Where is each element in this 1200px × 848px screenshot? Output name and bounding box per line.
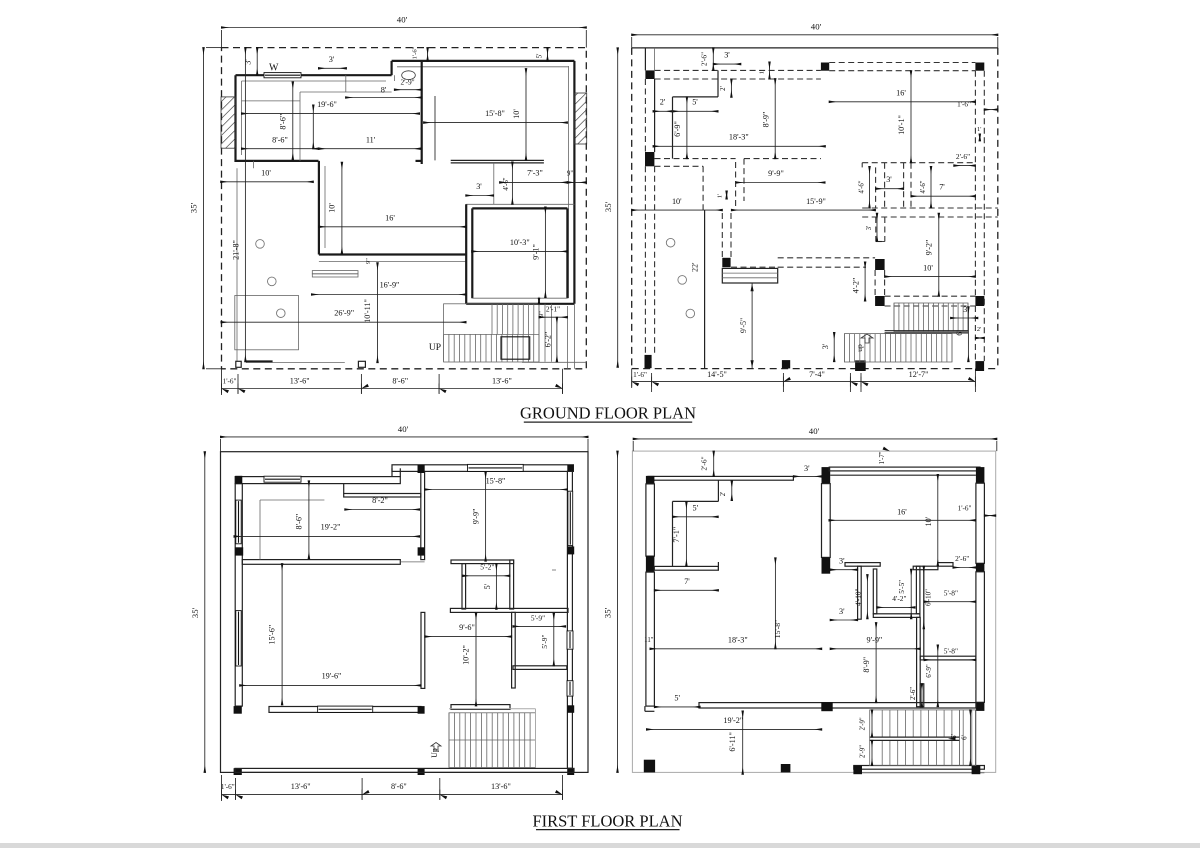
beam col mid upper [735,162,737,210]
svg-text:8'-9": 8'-9" [762,112,771,128]
svg-text:16': 16' [897,507,907,516]
svg-text:10': 10' [672,197,682,206]
svg-text:W: W [269,63,279,74]
beam col left [644,79,646,152]
dim 2' p4 [731,481,733,501]
beam row mid [862,207,998,209]
svg-text:11": 11" [644,637,654,644]
svg-text:3': 3' [244,59,253,65]
wardrobe shelf [451,159,544,161]
window parapet [318,706,373,712]
toilet top band [451,560,514,564]
stair direction arrow [948,737,956,740]
dim 15'-8 p4 [774,558,776,649]
wall step [391,61,393,75]
dim 1'-6 step [427,48,429,61]
svg-text:19'-6": 19'-6" [322,672,342,681]
svg-text:5': 5' [692,98,698,107]
dim 10' room [885,276,976,278]
dim 26'-9 [221,321,466,323]
dim 1'-6 p4 [984,515,995,517]
dim 6'-11 [742,711,744,774]
dim 10' hall [221,181,314,183]
svg-text:35': 35' [603,607,613,618]
svg-text:21'-8": 21'-8" [232,240,241,260]
dim 10' kitchen vert [341,162,343,253]
beam col mid lower [721,213,723,258]
svg-text:10': 10' [924,516,933,526]
svg-text:9'-5": 9'-5" [739,318,748,333]
svg-text:19'-6": 19'-6" [317,100,337,109]
dim 18'-3 p4 [650,648,822,650]
svg-text:8'-6": 8'-6" [391,782,407,791]
stair landing rect [501,337,530,359]
band toward 2'-6 [938,563,953,567]
dim 3' room [876,188,904,190]
dim 9'-5 line [751,283,753,369]
dim 2'-9 b [871,740,873,765]
dim 9'-9 p3 [485,472,487,561]
svg-text:4'-10": 4'-10" [854,589,862,606]
svg-text:10'-1": 10'-1" [897,115,906,135]
svg-text:3': 3' [476,182,482,191]
svg-text:9": 9" [538,311,545,317]
svg-text:3': 3' [724,51,730,60]
bedroom wall right [566,208,568,298]
svg-text:3': 3' [804,464,810,473]
column top right [567,465,573,472]
svg-text:2': 2' [720,492,727,497]
dim 2' step [730,79,732,97]
dim 5' toilet [495,564,497,610]
svg-text:2'-6": 2'-6" [700,456,709,470]
dim 15'-9 [731,209,875,211]
svg-text:26'-9": 26'-9" [334,309,354,318]
wall mid vertical lower [917,617,921,706]
dim 16' [829,101,975,103]
svg-text:1'-6": 1'-6" [957,101,971,109]
niche inner-right vertical [916,566,920,614]
svg-text:7'-4": 7'-4" [809,370,825,379]
room divider [923,570,925,660]
svg-text:UP: UP [429,343,441,353]
svg-text:3': 3' [886,175,892,184]
band room SE [920,656,976,660]
dim 1'-6 right [984,109,998,111]
column right bottom [567,768,574,775]
stair risers lower [443,334,445,361]
dim 21'-8 left [244,48,246,362]
svg-text:FIRST FLOOR PLAN: FIRST FLOOR PLAN [532,811,682,830]
wall band left [235,484,242,706]
svg-text:15'-8": 15'-8" [486,476,506,485]
dim 19'-6 [242,113,420,115]
dim 9'-6 [425,636,512,638]
dim 4'-6 a [869,167,871,209]
svg-text:9": 9" [365,258,372,264]
platform rect living [235,296,299,350]
toilet right band [510,560,514,609]
dim 6'-9 [686,97,688,159]
svg-text:8': 8' [381,86,387,95]
svg-text:15'-6": 15'-6" [268,625,277,645]
plan2 bottom dim chain [632,381,976,383]
column mid [418,547,425,555]
dim 5' terrace [654,706,700,708]
dim 10' vert right [525,69,527,160]
dim 16'-9 [312,294,466,296]
svg-text:4'-6": 4'-6" [920,180,927,193]
dim 8'-2 [345,509,420,511]
svg-text:5': 5' [674,694,680,703]
dim 2'-6 [712,48,714,71]
dim 2'-6 right [954,165,976,167]
beam row C [885,295,976,297]
dim 3' v [876,213,878,241]
wall stub at bath [416,160,422,162]
beam col left lower [644,166,646,355]
window right tall [568,491,573,545]
dim 3' [713,63,741,65]
column D1 [645,355,652,368]
dim 5' top-right [547,48,549,61]
svg-text:9'-2": 9'-2" [925,240,934,256]
kitchen counter [312,271,358,274]
svg-text:1': 1' [759,70,766,74]
wall band bedroom south [242,560,400,565]
column P3 left mid [235,547,243,555]
svg-text:16': 16' [385,214,395,223]
dim 2' [975,337,984,339]
living area left edge [236,168,238,361]
dim 10'-1 [910,71,912,163]
svg-text:19'-2": 19'-2" [723,716,743,725]
step wall kitchen [343,484,345,494]
stair risers p3 [448,713,450,768]
svg-text:6': 6' [962,735,969,740]
svg-text:7'-3": 7'-3" [527,169,543,178]
dim 6' stair p4 [969,710,971,766]
column B1 [645,152,654,166]
kitchen inner face [324,166,326,248]
svg-text:9": 9" [567,170,574,178]
dim 5' p4 [673,516,719,518]
svg-text:35': 35' [190,607,200,618]
svg-text:1': 1' [977,126,981,133]
svg-text:9'-1": 9'-1" [532,244,541,260]
column A1 [645,70,654,79]
svg-text:6': 6' [955,330,964,336]
dim 5'-9 h [513,625,566,627]
wall passage left [465,204,467,303]
plan3 overall 40' [221,436,589,438]
svg-text:13'-6": 13'-6" [491,782,511,791]
svg-text:3': 3' [839,556,845,565]
window right b [567,681,573,696]
svg-text:1': 1' [717,194,724,198]
svg-text:8'-6": 8'-6" [279,114,288,130]
sill block right [358,361,365,367]
dim 7' p4 [654,589,718,591]
svg-text:2'-6": 2'-6" [956,152,970,161]
closet partitions [259,500,261,560]
svg-text:5'-8": 5'-8" [944,647,958,656]
niche top-left band [845,563,880,567]
svg-text:8'-2": 8'-2" [372,496,388,505]
svg-text:2'-6": 2'-6" [700,52,709,66]
room SE south band [513,666,567,670]
column R2 [972,766,981,775]
svg-text:2'-6": 2'-6" [955,554,969,563]
wall band top-left [235,477,400,484]
stair risers upper p2 [893,303,895,332]
column P3 bottom-left [234,768,242,775]
svg-text:2': 2' [660,98,666,107]
svg-text:6'-9": 6'-9" [673,121,682,137]
svg-text:3': 3' [821,343,830,349]
dim 8'-9 p4 [875,623,877,703]
niche top-right band [913,566,938,570]
column D4 [975,361,984,371]
wall step lower [920,684,924,707]
wall band left upper [646,484,655,556]
plan4 outer border grey [632,451,995,772]
plan1 dashed plot boundary [222,48,587,369]
dim 18'-3 [653,145,825,147]
wall kitchen south [319,253,466,255]
outline steps top-left solid [672,97,674,159]
column D3 [855,360,866,371]
svg-text:5': 5' [693,504,699,513]
column Q7 tall [822,557,831,573]
dim 8'-9 [774,79,776,159]
tick line [312,105,314,149]
dim 15'-6 [281,564,283,705]
dim 2'-1 [539,316,567,318]
dim 8'-6 p3 [308,481,310,559]
svg-text:15'-8": 15'-8" [773,620,782,638]
svg-text:5'-9": 5'-9" [531,614,545,623]
balcony band kitchen [344,494,421,498]
bottom grey strip [0,843,1200,848]
svg-text:10'-11": 10'-11" [363,299,372,323]
dim 9'-9 [736,182,825,184]
svg-text:35': 35' [603,201,613,212]
column right mid [567,546,574,554]
svg-text:9'-9": 9'-9" [867,635,883,644]
bedroom bottom-right [466,203,574,205]
wall band above stairs p3 [451,705,510,710]
dim 2'-9 a [871,710,873,737]
dim 3' stair right [951,317,978,319]
dim 6'-10 [923,566,925,629]
sill block left [236,361,241,367]
wall kitchen left [318,161,320,255]
dim 3' top [793,475,821,477]
window W [264,73,301,78]
dim 11' [319,148,421,150]
bedroom wall bottom [466,303,574,305]
hatch pier left [221,97,236,148]
beam drop [702,166,704,210]
dim 4'-2 p4 [877,606,915,608]
svg-text:6'-11": 6'-11" [728,732,737,752]
svg-text:1'-6": 1'-6" [633,371,647,379]
dim 8'-6 vert [292,82,294,160]
dim 9'-1 bed [544,207,546,298]
svg-text:18'-3": 18'-3" [729,133,749,142]
svg-text:9'-9": 9'-9" [471,509,480,525]
svg-text:2'-6": 2'-6" [910,687,917,700]
svg-text:40': 40' [398,424,409,434]
dim 2'-6 p4 [713,451,715,476]
svg-text:8'-6": 8'-6" [272,135,288,144]
svg-text:10': 10' [328,203,337,213]
dim 19'-2 p4 [647,728,822,730]
svg-text:1'-7": 1'-7" [879,451,886,464]
svg-text:5': 5' [536,54,544,59]
grey partition line [242,100,301,102]
svg-text:5'-9": 5'-9" [540,634,549,648]
dim 1' beam [769,62,771,79]
dim 10'-2 [475,613,477,706]
svg-text:6'-10": 6'-10" [925,589,933,606]
wall band right [567,471,572,768]
svg-text:16': 16' [896,88,906,97]
column D2 [782,360,790,368]
stair risers upper p4 [881,710,883,737]
svg-text:2'-9": 2'-9" [400,78,414,87]
beams around dashed room right [862,162,975,164]
column Q6 tall [976,467,985,483]
dim 4'-6 b [930,167,932,209]
plan3 bottom dim chain [222,794,563,796]
porch edge [246,362,345,364]
dim 3' setback [256,48,258,76]
column C3 [875,296,885,306]
wall band mid vertical [421,471,425,559]
top border [632,47,998,49]
svg-text:8'-6": 8'-6" [392,377,408,386]
step connector [391,468,393,476]
dim 6' stair [967,307,969,362]
dim 10'-11 [377,263,379,363]
beam row B [655,158,736,160]
window left upper [236,500,241,544]
bottom band stairs [854,766,985,770]
dim 4'-2 [864,262,866,301]
column Q8 [976,563,985,572]
stair risers lower p2 [843,334,845,362]
svg-text:7': 7' [939,183,945,192]
wall band top right [392,465,573,472]
dim 8'-6 [242,148,319,150]
svg-text:9'-9": 9'-9" [768,169,784,178]
column Q2 tall [822,467,831,484]
svg-text:3': 3' [329,55,335,64]
svg-text:4'-6": 4'-6" [503,177,510,190]
column A2 [821,63,829,71]
svg-text:11': 11' [366,135,376,144]
dim 9'-9 p4 [830,648,920,650]
column Q1 [646,476,655,484]
plan3 stairs [449,713,536,768]
stair risers lower p4 [881,740,883,765]
column bottom mid [418,768,425,775]
plan2 overall 40' [632,34,998,36]
dim 5' [673,110,719,112]
wall band store south [654,566,718,570]
dim 8' bath [346,97,422,99]
column parapet right [418,706,425,714]
wall left [234,75,236,162]
beam col right [974,71,976,296]
wall band above stairs [699,703,976,708]
band dining left [421,612,425,688]
column Q9 [976,702,985,711]
bottom border dashed [632,368,998,370]
niche left vertical [858,566,862,619]
wall band right lower [976,572,985,703]
svg-text:6': 6' [951,734,958,739]
stair risers upper [491,304,493,335]
bottom line right [522,361,586,363]
wall band bottom [235,768,574,772]
svg-text:GROUND FLOOR PLAN: GROUND FLOOR PLAN [520,404,696,423]
column right low [567,705,574,713]
svg-text:40': 40' [397,15,408,25]
dim 4'-10 [866,575,868,619]
niche bottom band [873,614,920,618]
svg-text:10': 10' [512,109,521,119]
svg-text:10': 10' [923,263,933,272]
stairs ground floor [444,304,539,362]
svg-text:13'-6": 13'-6" [492,377,512,386]
svg-text:2'-9": 2'-9" [860,745,867,758]
column P3 left low [234,706,242,714]
column Q4 bottom-left [644,760,655,773]
svg-text:14'-5": 14'-5" [707,370,727,379]
dim 5'-5 [910,569,912,619]
dim 7' room [911,195,975,197]
step wall horizontal [673,500,719,502]
dim 9in right [567,181,586,183]
dim 10' p4 [937,475,939,566]
svg-text:19'-2": 19'-2" [321,523,341,532]
svg-text:4'-6": 4'-6" [859,180,866,193]
window top mid [468,464,524,471]
svg-text:40': 40' [811,22,822,32]
wall centre vertical [421,61,423,164]
toilet left band [462,564,466,609]
plan4 stairs (two flights) [870,710,976,766]
dim 5'-8 b [924,659,976,661]
wall band left lower [646,572,655,706]
svg-text:1'-6": 1'-6" [958,505,972,513]
extension line [434,96,436,160]
stair top edge [449,708,536,710]
utility partitions (thin) [299,92,301,161]
svg-text:2': 2' [977,326,981,333]
plan2 overall 35' [617,48,619,367]
inner faces (thin) [242,80,387,82]
dim 19'-6 p3 [240,684,421,686]
svg-text:6'-2": 6'-2" [544,332,553,348]
dim 15'-8 p3 [425,489,568,491]
band mid horizontal [450,608,568,612]
left border dashed [631,48,633,369]
svg-text:15'-9": 15'-9" [806,197,826,206]
